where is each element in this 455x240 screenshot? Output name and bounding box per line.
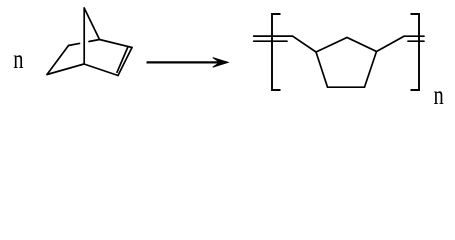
reaction arrow — [147, 58, 229, 68]
polymer repeat unit — [254, 36, 424, 87]
left C=C bottom line — [254, 40, 287, 42]
bond C2=C3 outer line — [118, 48, 132, 76]
norbornene molecule — [47, 8, 132, 76]
bond C1-C2 — [100, 40, 133, 48]
svg-text:n: n — [13, 45, 23, 74]
left bracket — [272, 14, 281, 90]
cyclopentane ring — [316, 38, 377, 88]
bond C7-C4 bridge vertical — [83, 8, 85, 64]
right C=C bottom line — [408, 40, 424, 42]
arrow shaft — [147, 61, 222, 63]
bond C1-C6 segment left — [69, 43, 80, 45]
arrow head — [213, 58, 228, 68]
right backbone bend + C=C top line — [377, 36, 425, 51]
left C=C top line + backbone bend to ring — [254, 36, 316, 52]
bond C7-C1 — [84, 8, 99, 40]
bond C1-C6 segment right — [89, 40, 100, 42]
right bracket — [411, 14, 420, 90]
bond C5-C4 — [47, 64, 84, 75]
bond C6-C5 — [47, 46, 69, 75]
bond C2=C3 inner line — [117, 48, 128, 73]
bond C4-C3 — [84, 64, 118, 76]
svg-text:n: n — [434, 81, 444, 110]
